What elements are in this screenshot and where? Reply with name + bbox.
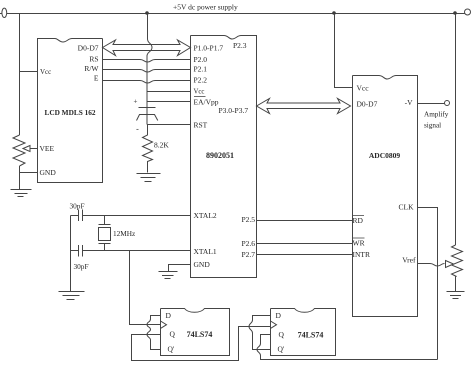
- wire: XTAL1 to divider clock: [130, 251, 161, 325]
- 74LS74 U2 block: [161, 309, 230, 356]
- wire: Vcc pin stub: [148, 91, 191, 93]
- svg-text:VEE: VEE: [40, 144, 55, 153]
- svg-text:Vcc: Vcc: [357, 84, 370, 93]
- wire: wiper to VEE pin: [30, 148, 38, 150]
- svg-text:EA/Vpp: EA/Vpp: [194, 98, 219, 107]
- svg-text:signal: signal: [424, 122, 441, 130]
- svg-text:-: -: [136, 125, 139, 134]
- 74LS74 U3 block: [271, 309, 336, 356]
- wire: rail to Vref pot: [455, 14, 457, 246]
- wire: Vcc to LCD: [20, 71, 38, 73]
- wire: CLK route to divider: [418, 208, 438, 360]
- svg-text:P2.5: P2.5: [241, 215, 255, 224]
- svg-text:30pF: 30pF: [74, 262, 89, 271]
- svg-text:P3.0-P3.7: P3.0-P3.7: [219, 106, 249, 115]
- svg-text:74LS74: 74LS74: [187, 330, 213, 339]
- node dot at x=455: [453, 11, 457, 15]
- capacitor C1 top plate: [139, 107, 156, 109]
- wire: MCU GND to ground: [169, 265, 191, 272]
- capacitor C1 bottom plate: [137, 115, 158, 121]
- bus arrow D0-D7 / P1.0-P1.7: [103, 40, 191, 56]
- wire: XTAL1 line: [71, 250, 191, 252]
- wire: Vref with hop over CLK line: [418, 264, 445, 267]
- 30pF capacitor top: [79, 210, 83, 222]
- +5V power rail: [7, 13, 465, 15]
- ground (Vref pot): [447, 292, 465, 299]
- svg-text:P2.2: P2.2: [194, 76, 208, 85]
- svg-text:-V: -V: [405, 98, 413, 107]
- overline RD: [353, 215, 364, 217]
- wire: U3 Q out to ADC CLK: [257, 335, 438, 360]
- wire: caps common to ground: [70, 216, 72, 292]
- svg-text:Vref: Vref: [402, 256, 416, 265]
- node dot at x=147: [145, 11, 149, 15]
- svg-text:Q: Q: [279, 330, 285, 339]
- svg-text:D0-D7: D0-D7: [357, 100, 378, 109]
- svg-text:GND: GND: [194, 260, 211, 269]
- svg-text:R/W: R/W: [84, 64, 99, 73]
- svg-text:D: D: [166, 311, 172, 320]
- svg-text:12MHz: 12MHz: [113, 229, 136, 238]
- ground (reset): [137, 174, 161, 182]
- wire: GND to LCD: [20, 172, 38, 174]
- overline WR: [353, 237, 365, 239]
- wire: RS - P2.0 with hop: [103, 60, 191, 63]
- svg-text:RD: RD: [353, 216, 364, 225]
- svg-text:CLK: CLK: [399, 203, 415, 212]
- ground (crystal): [59, 292, 85, 300]
- overline EA: [194, 96, 206, 98]
- svg-text:74LS74: 74LS74: [298, 331, 324, 340]
- svg-text:Vcc: Vcc: [40, 68, 51, 76]
- svg-text:8902051: 8902051: [206, 151, 234, 160]
- potentiometer Vref: [452, 245, 463, 277]
- left supply terminal: [2, 8, 7, 17]
- svg-text:XTAL2: XTAL2: [194, 211, 217, 220]
- ground (LCD): [11, 190, 32, 197]
- wire: U3 Q' to D feedback with hop: [249, 316, 271, 350]
- pot wiper arrow: [23, 146, 30, 152]
- wire: U2 Q out to U3 clock: [132, 327, 271, 361]
- svg-text:P2.0: P2.0: [194, 55, 208, 64]
- bus arrow P3.0-P3.7 / ADC D0-D7: [257, 99, 351, 114]
- svg-text:Q': Q': [278, 345, 285, 354]
- svg-text:RS: RS: [89, 55, 98, 64]
- svg-text:P1.0-P1.7: P1.0-P1.7: [194, 44, 224, 53]
- svg-text:P2.1: P2.1: [194, 65, 208, 74]
- wire: R/W - P2.1 with hop: [103, 70, 191, 73]
- svg-text:P2.6: P2.6: [241, 239, 255, 248]
- terminal circle -V: [445, 101, 450, 106]
- right supply terminal: [465, 9, 471, 15]
- wire: U2 Q' to D feedback with hops: [147, 316, 161, 350]
- svg-text:8.2K: 8.2K: [154, 141, 169, 150]
- clock triangle U3: [271, 321, 277, 328]
- svg-text:E: E: [94, 74, 99, 83]
- wire: rail branch to LCD Vcc / pot: [19, 14, 21, 136]
- pot wiper arrow (Vref): [446, 261, 454, 268]
- svg-text:D0-D7: D0-D7: [78, 44, 99, 53]
- svg-text:RST: RST: [194, 121, 208, 130]
- wire: P2.5 - RD: [257, 220, 353, 222]
- svg-text:LCD MDLS 162: LCD MDLS 162: [44, 108, 95, 117]
- svg-text:30pF: 30pF: [70, 202, 85, 211]
- ADC0809 block: [353, 76, 418, 317]
- svg-text:Vcc: Vcc: [194, 89, 205, 96]
- wire: +5V branch to 89C2051 Vcc/EA and reset circuit: [147, 14, 152, 125]
- wire: P2.6 - WR: [257, 243, 353, 245]
- svg-text:D: D: [276, 311, 282, 320]
- ground (MCU): [159, 272, 178, 279]
- svg-text:INTR: INTR: [353, 250, 371, 259]
- potentiometer VEE (contrast): [13, 135, 25, 166]
- svg-text:WR: WR: [353, 239, 365, 248]
- 30pF capacitor bottom: [79, 245, 83, 257]
- svg-text:+5V dc power supply: +5V dc power supply: [173, 3, 238, 12]
- svg-text:XTAL1: XTAL1: [194, 247, 217, 256]
- clock triangle U2: [161, 321, 167, 328]
- LCD MDLS 162 block: [38, 39, 103, 183]
- svg-text:Q': Q': [168, 345, 175, 354]
- wire: E - P2.2 with hop: [103, 81, 191, 84]
- wire: XTAL2 line: [71, 215, 191, 217]
- wire: pot to ground: [455, 277, 457, 292]
- wire: rail branch to ADC Vcc: [335, 14, 353, 88]
- wire: below pot: [19, 166, 21, 189]
- crystal X1 12MHz: [99, 216, 111, 251]
- wire: EA/Vpp pin stub: [148, 101, 191, 103]
- svg-text:Amplify: Amplify: [424, 111, 449, 119]
- svg-text:Q: Q: [170, 330, 176, 339]
- wire: -V output: [418, 103, 445, 105]
- svg-text:ADC0809: ADC0809: [369, 151, 400, 160]
- svg-text:P2.3: P2.3: [233, 41, 247, 50]
- wire: RST stub: [148, 124, 191, 126]
- svg-text:P2.7: P2.7: [241, 250, 255, 259]
- wire: P2.7 - INTR: [257, 254, 353, 256]
- 89C2051 block: [191, 36, 257, 278]
- svg-text:GND: GND: [40, 168, 57, 177]
- svg-text:+: +: [134, 98, 138, 106]
- node dot at x=334: [332, 11, 336, 15]
- resistor R1 8.2K: [143, 125, 153, 173]
